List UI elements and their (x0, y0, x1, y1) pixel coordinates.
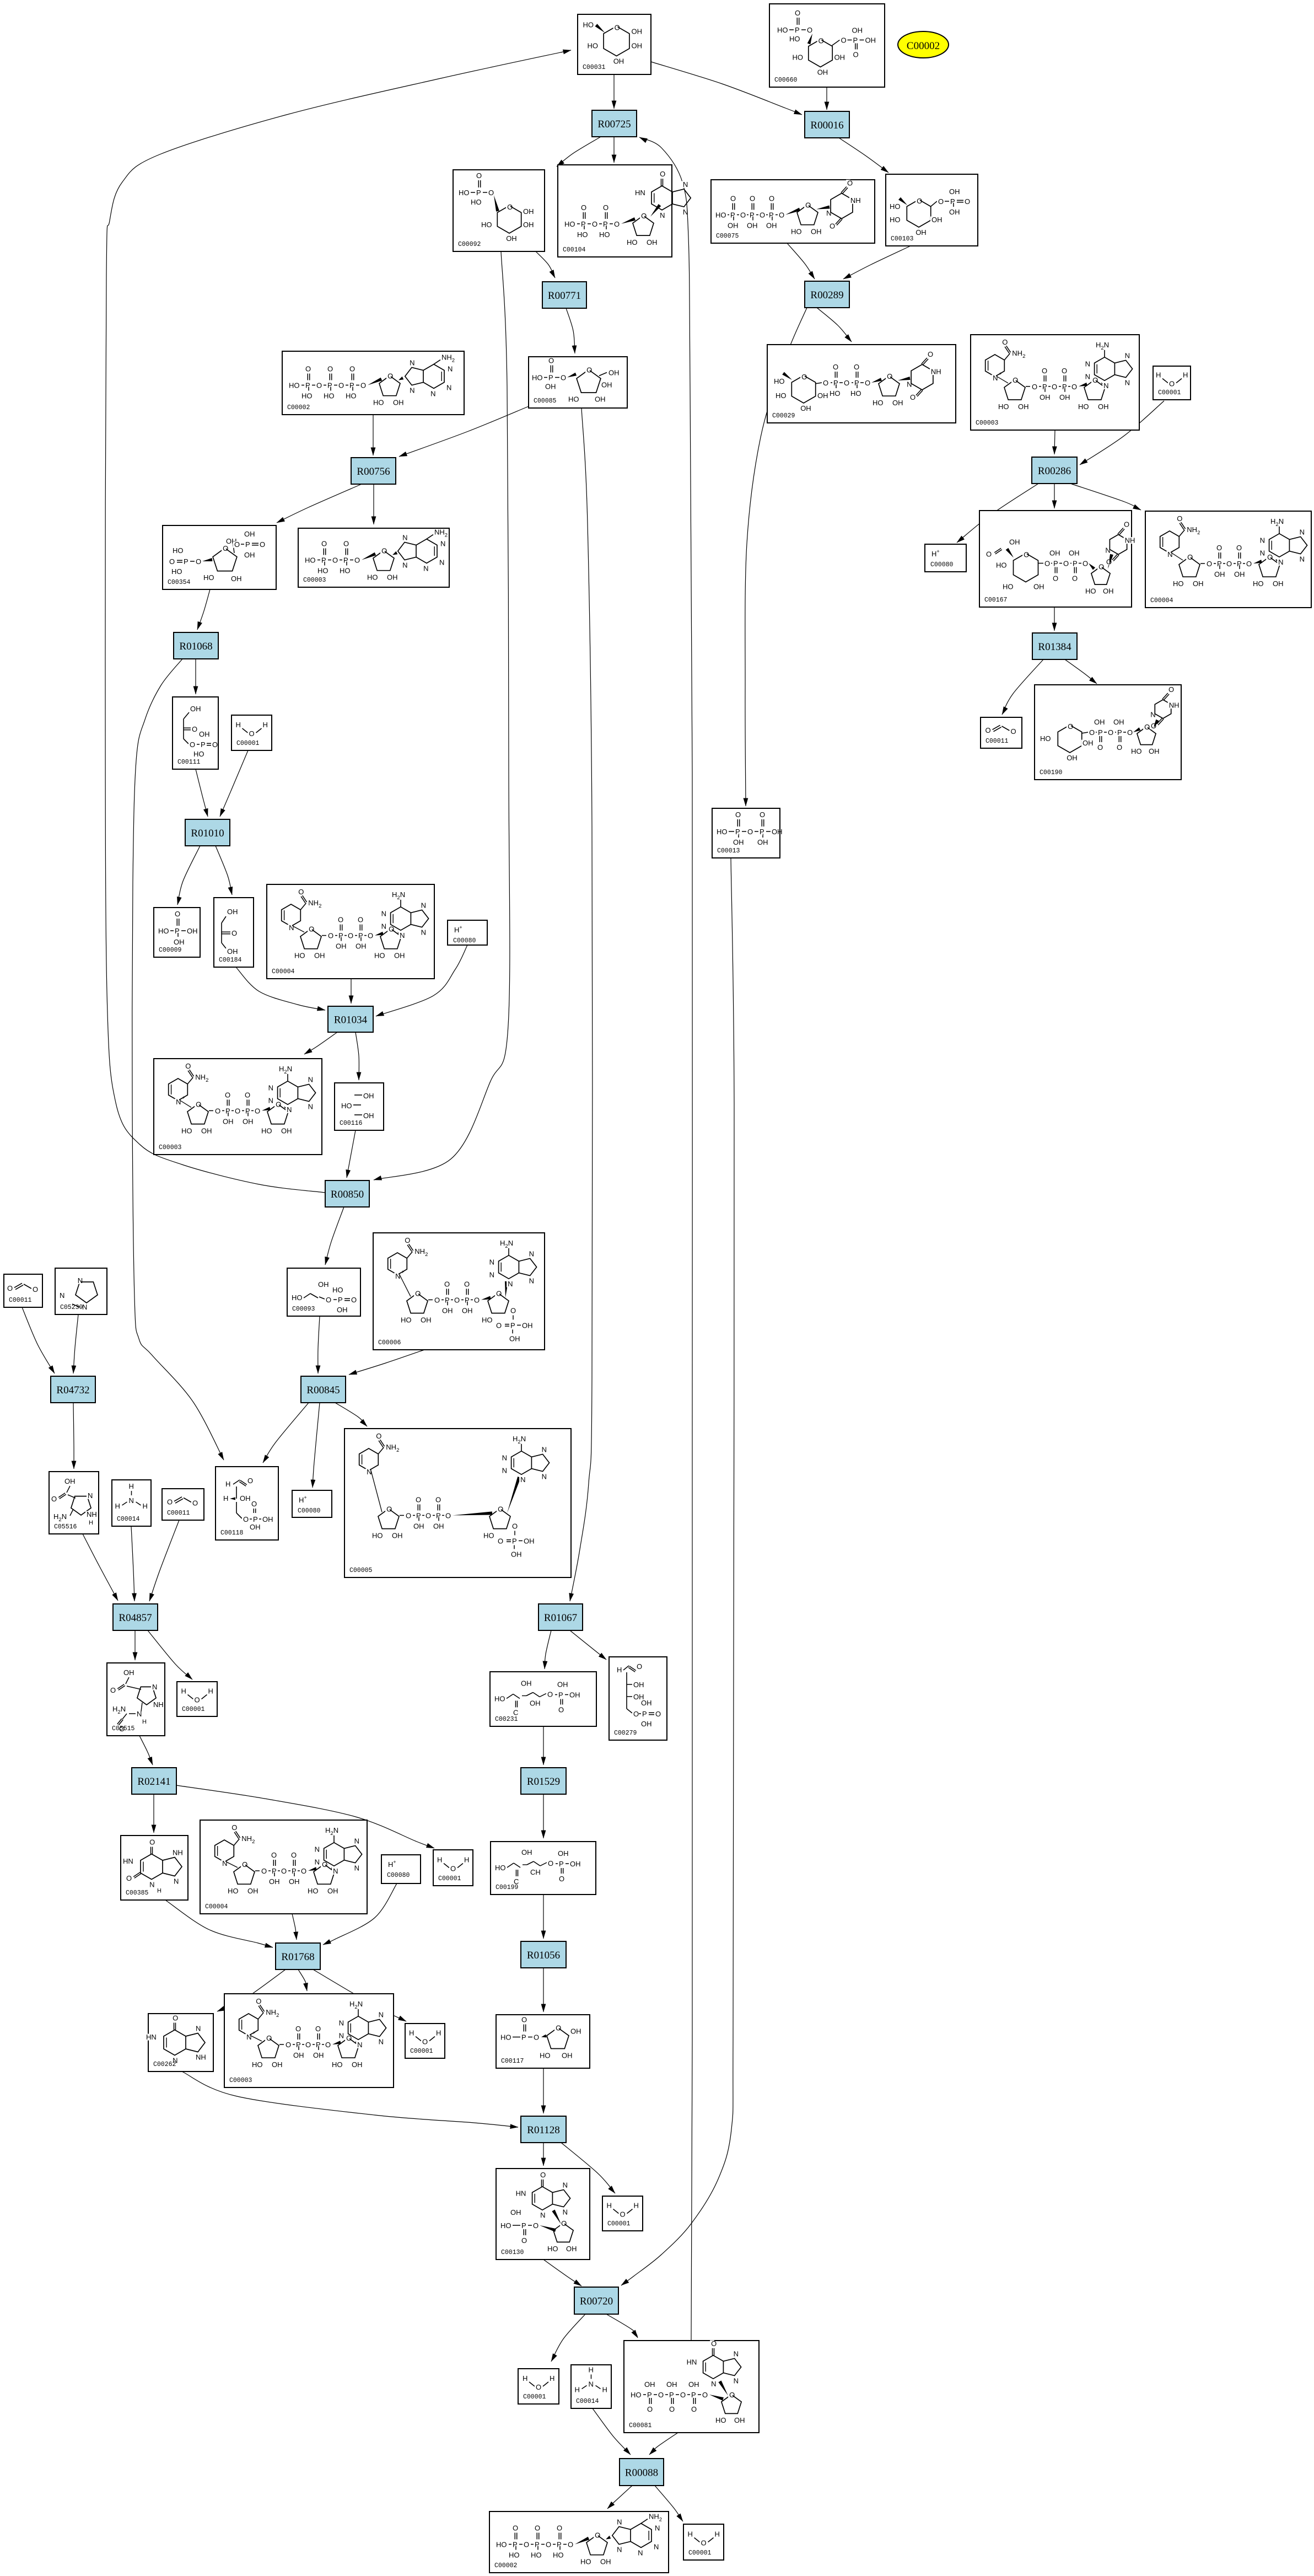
svg-text:O: O (1024, 551, 1029, 559)
svg-text:CH: CH (530, 1868, 541, 1876)
svg-text:OH: OH (352, 2060, 363, 2069)
svg-text:O: O (1151, 722, 1156, 730)
svg-text:OH: OH (817, 68, 828, 77)
svg-text:O: O (1108, 728, 1113, 737)
svg-text:HO: HO (332, 2060, 343, 2069)
svg-text:HO: HO (1040, 734, 1051, 743)
svg-text:O: O (1068, 722, 1073, 731)
svg-text:P: P (735, 828, 740, 836)
svg-text:O: O (261, 1867, 267, 1875)
svg-text:OH: OH (247, 1887, 259, 1895)
svg-text:O: O (231, 1823, 237, 1832)
svg-text:R04732: R04732 (56, 1384, 89, 1396)
svg-text:O: O (454, 1296, 460, 1304)
svg-text:O: O (464, 1280, 470, 1288)
svg-text:O: O (823, 379, 828, 387)
svg-text:N: N (78, 1276, 83, 1285)
svg-text:N: N (339, 2019, 344, 2027)
svg-text:HO: HO (777, 26, 788, 34)
svg-text:OH: OH (387, 573, 398, 582)
svg-text:OH: OH (462, 1306, 473, 1314)
svg-text:O: O (521, 2236, 527, 2245)
svg-text:O: O (231, 929, 237, 937)
svg-text:O: O (1092, 376, 1098, 384)
svg-text:O: O (7, 1284, 13, 1292)
svg-text:+: + (999, 371, 1001, 377)
svg-text:OH: OH (1094, 718, 1105, 726)
svg-text:O: O (603, 203, 608, 212)
svg-text:OH: OH (562, 2052, 573, 2060)
svg-text:N: N (333, 1867, 338, 1875)
svg-text:O: O (760, 211, 765, 219)
svg-text:O: O (1072, 575, 1078, 583)
svg-text:O: O (321, 540, 327, 548)
svg-text:O: O (669, 2405, 675, 2413)
svg-text:P: P (175, 927, 180, 935)
svg-text:O: O (637, 1662, 642, 1671)
svg-text:OH: OH (566, 2245, 577, 2253)
svg-text:N: N (654, 2542, 659, 2551)
svg-text:N: N (268, 1083, 273, 1092)
svg-text:N: N (508, 1280, 513, 1288)
svg-text:C00001: C00001 (410, 2048, 433, 2055)
svg-text:N: N (529, 1277, 534, 1285)
svg-text:P: P (512, 1537, 517, 1545)
svg-text:O: O (126, 1874, 132, 1882)
svg-text:O: O (496, 1289, 502, 1297)
svg-text:OH: OH (363, 1112, 374, 1120)
svg-text:O: O (546, 2541, 551, 2549)
svg-text:R00771: R00771 (548, 290, 581, 302)
svg-text:HO: HO (1173, 579, 1184, 588)
svg-text:HO: HO (588, 42, 599, 50)
svg-text:P: P (521, 2221, 526, 2230)
svg-text:H: H (1183, 371, 1188, 379)
svg-text:P: P (548, 374, 553, 382)
svg-text:O: O (641, 212, 647, 220)
svg-text:OH: OH (433, 1522, 444, 1530)
svg-text:N: N (268, 1097, 273, 1105)
svg-text:O: O (735, 811, 741, 819)
svg-text:O: O (561, 2219, 567, 2228)
svg-text:NH: NH (196, 2053, 206, 2062)
svg-text:P: P (750, 211, 755, 219)
svg-text:OH: OH (688, 2380, 699, 2389)
svg-text:N: N (1278, 558, 1283, 566)
svg-text:N: N (1103, 382, 1108, 390)
svg-text:OH: OH (1193, 579, 1204, 588)
svg-text:O: O (381, 547, 387, 555)
svg-text:OH: OH (949, 187, 960, 196)
svg-text:H: H (143, 1502, 148, 1510)
svg-text:OH: OH (545, 383, 556, 391)
svg-text:C00029: C00029 (772, 412, 795, 420)
svg-text:OH: OH (1149, 747, 1160, 755)
svg-text:O: O (175, 910, 180, 918)
svg-text:R01067: R01067 (544, 1612, 577, 1624)
svg-text:HO: HO (553, 2551, 564, 2559)
svg-text:N: N (381, 922, 386, 931)
svg-text:HO: HO (998, 402, 1009, 411)
svg-text:C05516: C05516 (54, 1523, 77, 1531)
svg-text:C00117: C00117 (501, 2058, 524, 2065)
svg-text:N: N (1125, 379, 1130, 387)
svg-text:O: O (1042, 367, 1047, 375)
svg-text:OH: OH (227, 947, 238, 956)
svg-text:O: O (1097, 743, 1103, 752)
svg-text:OH: OH (337, 1306, 348, 1314)
svg-text:OH: OH (392, 1531, 403, 1539)
svg-text:C00001: C00001 (607, 2220, 631, 2228)
svg-text:P: P (691, 2391, 696, 2399)
svg-text:O: O (281, 1867, 287, 1875)
svg-text:R00725: R00725 (597, 119, 631, 130)
svg-text:O: O (691, 2405, 697, 2413)
svg-text:P: P (647, 2391, 652, 2399)
svg-text:N: N (421, 929, 426, 937)
svg-text:N: N (683, 208, 688, 216)
svg-text:O: O (338, 382, 344, 390)
svg-text:O: O (298, 888, 304, 896)
svg-text:N: N (446, 383, 451, 391)
svg-text:N: N (1260, 549, 1265, 557)
svg-text:N: N (439, 558, 444, 566)
svg-text:OH: OH (1018, 402, 1029, 411)
svg-text:C00004: C00004 (1150, 597, 1173, 604)
svg-text:C00013: C00013 (717, 847, 740, 855)
svg-text:HO: HO (459, 189, 470, 197)
svg-text:R01128: R01128 (527, 2124, 559, 2136)
svg-text:O: O (1063, 560, 1069, 568)
svg-text:HO: HO (1131, 747, 1142, 755)
svg-text:OH: OH (557, 1681, 568, 1689)
svg-text:H: H (157, 1888, 161, 1895)
svg-text:OH: OH (1083, 739, 1094, 747)
svg-text:OH: OH (916, 228, 927, 237)
svg-text:H: H (437, 1856, 442, 1864)
svg-text:O: O (1083, 560, 1088, 568)
svg-text:O: O (196, 1100, 201, 1108)
svg-text:HO: HO (500, 2033, 511, 2042)
svg-text:H: H (617, 1666, 622, 1674)
svg-text:N: N (683, 180, 688, 189)
svg-text:HO: HO (340, 567, 351, 575)
svg-text:N: N (410, 387, 414, 395)
svg-text:O: O (476, 171, 482, 180)
svg-text:N: N (440, 540, 445, 548)
svg-text:C00006: C00006 (378, 1339, 401, 1346)
svg-text:N: N (711, 2380, 716, 2388)
svg-text:O: O (196, 557, 201, 566)
svg-text:H: H (115, 1502, 120, 1510)
svg-text:O: O (854, 363, 859, 371)
svg-text:O: O (249, 729, 255, 738)
svg-text:R00756: R00756 (357, 466, 390, 477)
svg-text:OH: OH (892, 399, 903, 407)
svg-text:O: O (536, 2383, 541, 2391)
svg-text:OH: OH (1067, 754, 1078, 762)
svg-text:C05239: C05239 (60, 1304, 83, 1311)
svg-text:P: P (795, 26, 800, 34)
svg-text:H: H (208, 1687, 213, 1695)
svg-text:OH: OH (523, 221, 534, 229)
svg-text:OH: OH (510, 2208, 521, 2217)
svg-text:OH: OH (632, 28, 643, 36)
svg-text:HO: HO (717, 828, 728, 836)
svg-text:R00016: R00016 (810, 120, 843, 131)
svg-text:H: H (634, 2202, 639, 2210)
svg-text:C00231: C00231 (495, 1716, 518, 1723)
svg-text:OH: OH (1113, 718, 1124, 726)
svg-text:OH: OH (530, 1699, 541, 1708)
svg-text:O: O (1062, 367, 1067, 375)
svg-text:N: N (734, 2349, 739, 2358)
svg-text:O: O (195, 1696, 200, 1704)
svg-text:HO: HO (540, 2052, 551, 2060)
svg-text:O: O (343, 540, 349, 548)
svg-text:C00004: C00004 (205, 1903, 228, 1910)
svg-text:O: O (853, 51, 859, 59)
svg-text:P: P (338, 1296, 343, 1304)
svg-text:N: N (60, 1291, 64, 1300)
svg-text:OH: OH (811, 228, 822, 236)
svg-text:OH: OH (240, 1494, 251, 1502)
svg-text:O: O (521, 2016, 527, 2024)
svg-text:N: N (655, 2524, 660, 2532)
svg-text:O: O (260, 540, 265, 549)
svg-text:O: O (474, 1296, 480, 1304)
svg-text:C00009: C00009 (159, 947, 182, 954)
svg-text:O: O (1168, 685, 1174, 694)
svg-text:N: N (489, 1271, 494, 1279)
svg-text:HN: HN (123, 1857, 133, 1865)
svg-text:N: N (563, 2181, 568, 2189)
svg-text:OH: OH (442, 1306, 453, 1314)
svg-text:N: N (289, 924, 294, 932)
svg-text:O: O (376, 1432, 381, 1440)
svg-text:H: H (225, 1480, 230, 1488)
svg-text:O: O (581, 203, 586, 212)
svg-text:P: P (201, 740, 206, 749)
svg-text:R01068: R01068 (179, 641, 212, 652)
svg-text:C00075: C00075 (716, 233, 739, 240)
svg-text:OH: OH (600, 2558, 611, 2566)
svg-text:O: O (561, 374, 566, 382)
svg-text:C00011: C00011 (985, 738, 1009, 745)
svg-text:H: H (589, 2366, 594, 2374)
svg-text:HO: HO (317, 567, 328, 575)
svg-text:NH: NH (173, 1849, 183, 1857)
svg-text:OH: OH (558, 1849, 569, 1858)
svg-text:O: O (234, 540, 240, 549)
svg-text:HO: HO (252, 2060, 263, 2069)
svg-text:OH: OH (244, 551, 255, 559)
svg-text:HO: HO (996, 561, 1007, 570)
svg-text:P: P (321, 556, 326, 565)
svg-text:O: O (406, 1511, 411, 1520)
svg-text:OH: OH (187, 927, 198, 935)
svg-text:O: O (1246, 560, 1252, 568)
svg-text:O: O (524, 2541, 529, 2549)
svg-text:HN: HN (516, 2189, 526, 2197)
svg-text:N: N (421, 901, 426, 909)
svg-text:OH: OH (421, 1316, 432, 1324)
svg-text:OH: OH (747, 222, 758, 230)
svg-text:C00093: C00093 (292, 1306, 315, 1313)
svg-text:O: O (1106, 558, 1112, 566)
svg-text:N: N (308, 1075, 313, 1083)
svg-text:HO: HO (305, 556, 316, 565)
svg-text:N: N (529, 1249, 534, 1258)
svg-text:HO: HO (332, 1286, 343, 1294)
svg-text:OH: OH (1009, 538, 1020, 546)
svg-text:N: N (379, 2038, 384, 2046)
svg-text:C00085: C00085 (534, 398, 557, 405)
svg-text:OH: OH (772, 828, 783, 836)
svg-text:P: P (1098, 728, 1103, 737)
svg-text:N: N (1260, 536, 1265, 544)
svg-text:H: H (607, 2202, 612, 2210)
svg-text:O: O (1071, 383, 1077, 391)
svg-text:O: O (1011, 727, 1016, 736)
svg-text:O: O (568, 2541, 573, 2549)
svg-text:HO: HO (890, 216, 901, 224)
svg-text:OH: OH (521, 1679, 532, 1688)
svg-text:HO: HO (308, 1887, 319, 1895)
svg-text:O: O (558, 1706, 564, 1714)
svg-text:N: N (520, 1475, 525, 1484)
svg-text:N: N (88, 1491, 93, 1500)
svg-text:N: N (395, 1272, 400, 1280)
svg-text:HN: HN (687, 2358, 697, 2366)
svg-text:OH: OH (632, 42, 643, 50)
svg-text:HO: HO (374, 952, 385, 960)
svg-text:OH: OH (363, 1092, 374, 1100)
svg-text:O: O (149, 1838, 155, 1847)
svg-text:O: O (51, 1495, 57, 1503)
svg-text:O: O (435, 1495, 441, 1504)
svg-text:R00850: R00850 (331, 1189, 364, 1200)
svg-text:O: O (1236, 544, 1242, 552)
svg-text:OH: OH (318, 1280, 329, 1289)
svg-text:OH: OH (511, 1550, 522, 1558)
svg-text:O: O (444, 1280, 450, 1288)
svg-text:OH: OH (1040, 393, 1051, 401)
svg-text:HO: HO (1003, 583, 1014, 591)
svg-text:C00279: C00279 (614, 1730, 637, 1737)
svg-text:OH: OH (281, 1126, 292, 1135)
svg-text:O: O (986, 550, 992, 559)
svg-text:HO: HO (171, 567, 182, 576)
svg-text:N: N (308, 1103, 313, 1111)
svg-text:O: O (368, 932, 373, 940)
svg-text:C00116: C00116 (340, 1120, 363, 1127)
svg-text:O: O (729, 2391, 735, 2399)
svg-text:O: O (540, 2171, 546, 2179)
svg-text:HO: HO (173, 546, 184, 555)
svg-text:O: O (795, 9, 800, 17)
svg-text:HO: HO (228, 1887, 239, 1895)
svg-text:OH: OH (1069, 549, 1080, 557)
svg-text:HO: HO (599, 230, 610, 239)
svg-text:R01034: R01034 (334, 1015, 368, 1026)
svg-text:O: O (1089, 728, 1095, 737)
svg-text:O: O (938, 197, 944, 206)
svg-text:O: O (488, 189, 494, 197)
svg-text:HO: HO (509, 2551, 520, 2559)
svg-text:HO: HO (495, 1864, 506, 1872)
svg-text:P: P (1117, 728, 1122, 737)
svg-text:O: O (655, 1710, 661, 1718)
svg-text:O: O (242, 1860, 247, 1869)
svg-text:OH: OH (314, 952, 325, 960)
svg-text:O: O (841, 36, 847, 45)
svg-text:P: P (349, 382, 354, 390)
svg-text:O: O (496, 1321, 502, 1329)
svg-text:N: N (502, 1453, 507, 1462)
svg-text:HO: HO (481, 221, 492, 229)
svg-text:N: N (287, 1105, 292, 1114)
svg-text:O: O (1267, 553, 1273, 561)
svg-text:C00001: C00001 (182, 1706, 205, 1713)
svg-text:R02141: R02141 (137, 1776, 170, 1788)
svg-text:NH: NH (931, 368, 941, 376)
svg-text:HO: HO (367, 573, 378, 582)
svg-text:O: O (445, 1511, 451, 1520)
svg-text:P: P (245, 540, 250, 549)
svg-text:N: N (315, 1845, 320, 1853)
svg-text:N: N (315, 1858, 320, 1866)
svg-text:HO: HO (158, 927, 169, 935)
svg-text:C00354: C00354 (168, 579, 191, 586)
svg-text:C00103: C00103 (891, 235, 914, 243)
svg-text:O: O (215, 1107, 220, 1115)
svg-text:H: H (464, 1856, 469, 1864)
svg-text:HO: HO (583, 21, 594, 29)
svg-text:O: O (534, 2033, 539, 2042)
svg-text:NH: NH (153, 1700, 164, 1709)
svg-text:OH: OH (313, 2051, 324, 2059)
svg-text:O: O (192, 1499, 198, 1507)
svg-text:O: O (1053, 575, 1058, 583)
svg-text:OH: OH (641, 1699, 652, 1707)
svg-text:O: O (512, 1522, 518, 1530)
svg-text:HO: HO (181, 1126, 192, 1135)
svg-text:OH: OH (608, 369, 620, 377)
svg-text:N: N (1085, 373, 1090, 381)
svg-text:HO: HO (531, 2551, 542, 2559)
svg-text:C00003: C00003 (229, 2077, 252, 2084)
svg-text:P: P (760, 828, 764, 836)
svg-text:P: P (1073, 560, 1078, 568)
svg-text:NH: NH (850, 196, 861, 205)
svg-text:O: O (110, 1686, 116, 1694)
svg-text:C00002: C00002 (907, 40, 940, 52)
svg-text:OH: OH (394, 952, 405, 960)
svg-text:P: P (730, 211, 735, 219)
svg-text:N: N (246, 2033, 251, 2041)
svg-text:O: O (1187, 553, 1193, 561)
svg-text:N: N (402, 561, 407, 570)
svg-text:C00003: C00003 (976, 420, 999, 427)
svg-text:O: O (332, 556, 338, 565)
svg-text:C00385: C00385 (126, 1890, 149, 1897)
svg-text:HO: HO (830, 389, 841, 398)
svg-text:HO: HO (373, 399, 384, 407)
svg-text:O: O (326, 1296, 331, 1304)
svg-text:OH: OH (569, 1691, 580, 1699)
svg-text:HO: HO (203, 573, 214, 582)
